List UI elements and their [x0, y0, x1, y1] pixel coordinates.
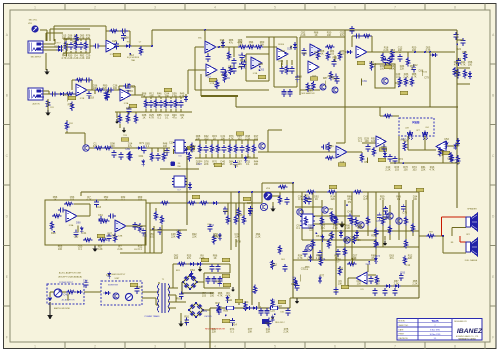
svg-text:4.7K: 4.7K	[179, 95, 184, 98]
svg-text:C83: C83	[137, 286, 142, 289]
svg-text:C28: C28	[277, 305, 282, 308]
svg-text:R99: R99	[103, 92, 108, 95]
svg-text:C12: C12	[406, 264, 411, 267]
svg-text:47u: 47u	[340, 34, 345, 37]
svg-text:C56: C56	[214, 85, 219, 88]
svg-text:D98: D98	[76, 222, 81, 225]
svg-text:R53: R53	[100, 219, 105, 222]
svg-text:0.1: 0.1	[358, 140, 362, 143]
svg-text:C98: C98	[439, 150, 444, 153]
svg-text:0.1: 0.1	[138, 248, 142, 251]
svg-text:C13: C13	[96, 206, 101, 209]
svg-text:R25: R25	[454, 71, 459, 74]
svg-text:AC/DC ADAPTOR UNIT: AC/DC ADAPTOR UNIT	[59, 272, 82, 275]
svg-text:2.2K: 2.2K	[383, 49, 388, 52]
svg-text:22K: 22K	[408, 257, 413, 260]
svg-text:R14: R14	[232, 324, 237, 327]
svg-text:DATE: DATE	[399, 328, 405, 331]
svg-text:D18: D18	[89, 97, 94, 100]
svg-text:0.1: 0.1	[246, 163, 250, 166]
svg-text:R32: R32	[112, 235, 117, 238]
svg-text:R48: R48	[126, 107, 131, 110]
svg-text:R81: R81	[203, 310, 208, 313]
svg-text:10K: 10K	[371, 140, 376, 143]
svg-text:PRINT: PRINT	[399, 334, 406, 336]
svg-text:1.1: 1.1	[434, 338, 437, 340]
svg-text:B: B	[492, 94, 494, 98]
svg-text:C44: C44	[83, 280, 88, 283]
svg-text:1K: 1K	[158, 95, 161, 98]
svg-text:22K: 22K	[331, 198, 336, 201]
svg-text:D20: D20	[51, 232, 56, 235]
svg-text:1K: 1K	[180, 117, 183, 120]
svg-text:R&B: R&B	[412, 121, 420, 125]
svg-text:R91: R91	[184, 315, 189, 318]
svg-text:103: 103	[396, 76, 401, 79]
svg-text:0.1: 0.1	[296, 227, 300, 230]
svg-text:TAB: TAB	[131, 59, 135, 62]
svg-text:0.1: 0.1	[157, 117, 161, 120]
svg-text:1K: 1K	[213, 138, 216, 141]
svg-text:C41: C41	[82, 232, 87, 235]
svg-text:MODEL: MODEL	[399, 321, 406, 323]
svg-text:2.2K: 2.2K	[385, 169, 390, 172]
svg-text:D24: D24	[456, 48, 461, 51]
svg-text:IC8B: IC8B	[118, 236, 123, 238]
svg-text:POWER SUPPLY: POWER SUPPLY	[109, 274, 126, 276]
svg-text:C22: C22	[142, 234, 147, 237]
svg-text:D29: D29	[246, 156, 251, 159]
svg-text:C35: C35	[456, 58, 461, 61]
svg-text:DRIVE: DRIVE	[278, 44, 285, 46]
svg-text:C34: C34	[98, 214, 103, 217]
svg-text:2: 2	[94, 6, 96, 10]
svg-text:10K: 10K	[364, 140, 369, 143]
svg-text:R12: R12	[291, 283, 296, 286]
svg-text:2.2K: 2.2K	[283, 331, 288, 334]
svg-text:R78: R78	[236, 240, 241, 243]
svg-text:R59: R59	[225, 77, 230, 80]
svg-text:1K: 1K	[53, 199, 56, 202]
svg-text:47u: 47u	[93, 145, 98, 148]
svg-text:10K: 10K	[93, 87, 98, 90]
svg-text:R31: R31	[328, 234, 333, 237]
svg-text:0.1: 0.1	[165, 117, 169, 120]
svg-text:2: 2	[434, 325, 435, 327]
svg-text:D60: D60	[280, 50, 285, 53]
svg-text:C40: C40	[63, 294, 68, 297]
svg-text:2: 2	[94, 345, 96, 349]
svg-text:2.2K: 2.2K	[172, 95, 177, 98]
svg-text:103: 103	[412, 169, 417, 172]
svg-text:1K: 1K	[314, 34, 317, 37]
svg-text:D30: D30	[191, 145, 196, 148]
svg-text:C76: C76	[270, 299, 275, 302]
svg-text:C90: C90	[351, 257, 356, 260]
svg-text:R68: R68	[215, 281, 220, 284]
svg-text:R27: R27	[375, 243, 380, 246]
svg-text:4.7K: 4.7K	[425, 49, 430, 52]
svg-text:R85: R85	[381, 146, 386, 149]
svg-text:TA25: TA25	[431, 319, 438, 323]
svg-text:103: 103	[340, 53, 345, 56]
svg-text:0.1: 0.1	[249, 44, 253, 47]
svg-text:R58: R58	[68, 104, 73, 107]
svg-text:103: 103	[202, 295, 207, 298]
svg-text:47u: 47u	[321, 227, 326, 230]
svg-text:100: 100	[58, 248, 63, 251]
svg-text:MIC INPUT: MIC INPUT	[31, 57, 42, 59]
svg-text:2.2K: 2.2K	[199, 257, 204, 260]
svg-text:D18: D18	[238, 214, 243, 217]
svg-text:22K: 22K	[171, 236, 176, 239]
svg-text:R86: R86	[258, 63, 263, 66]
svg-text:D89: D89	[228, 65, 233, 68]
svg-text:REVISION: REVISION	[399, 338, 409, 340]
svg-text:R56: R56	[371, 235, 376, 238]
svg-text:22K: 22K	[260, 44, 265, 47]
svg-text:D58: D58	[124, 36, 129, 39]
svg-text:0.1: 0.1	[121, 199, 125, 202]
svg-text:C74: C74	[321, 258, 326, 261]
svg-text:0.1: 0.1	[78, 248, 82, 251]
svg-text:R81: R81	[329, 145, 334, 148]
svg-text:C41: C41	[347, 211, 352, 214]
svg-text:C68: C68	[301, 223, 306, 226]
svg-text:C87: C87	[350, 237, 355, 240]
svg-text:R53: R53	[305, 266, 310, 269]
svg-text:D17: D17	[217, 236, 222, 239]
svg-text:2.2K: 2.2K	[79, 57, 84, 60]
svg-text:C25: C25	[112, 40, 117, 43]
svg-text:REG DR C: REG DR C	[275, 322, 285, 324]
svg-text:100: 100	[113, 87, 118, 90]
svg-text:47u: 47u	[187, 257, 192, 260]
svg-text:10K: 10K	[254, 163, 259, 166]
svg-text:IC3B: IC3B	[253, 73, 258, 75]
svg-text:22K: 22K	[266, 331, 271, 334]
svg-text:6: 6	[334, 6, 336, 10]
svg-text:E: E	[492, 275, 494, 279]
svg-text:C76: C76	[402, 211, 407, 214]
svg-text:C70: C70	[376, 220, 381, 223]
svg-text:1K: 1K	[142, 117, 145, 120]
svg-text:D65: D65	[336, 259, 341, 262]
svg-text:D68: D68	[72, 40, 77, 43]
svg-text:10K: 10K	[248, 331, 253, 334]
svg-text:103: 103	[237, 138, 242, 141]
svg-text:C93: C93	[74, 235, 79, 238]
svg-text:D42: D42	[227, 299, 232, 302]
svg-text:D52: D52	[272, 264, 277, 267]
svg-text:2.2K: 2.2K	[300, 34, 305, 37]
svg-text:RED WIRE REMOVE: RED WIRE REMOVE	[205, 329, 226, 331]
svg-text:R64: R64	[209, 224, 214, 227]
svg-text:D58: D58	[297, 75, 302, 78]
svg-text:2.2K: 2.2K	[67, 57, 72, 60]
svg-text:IC2A: IC2A	[124, 102, 129, 105]
svg-text:22K: 22K	[400, 68, 405, 71]
svg-text:4.7K: 4.7K	[217, 295, 222, 298]
svg-text:SHEET NO.: SHEET NO.	[399, 325, 410, 327]
svg-text:R23: R23	[62, 54, 67, 57]
svg-text:POWER TRANS: POWER TRANS	[145, 315, 161, 318]
svg-text:C11: C11	[164, 150, 169, 153]
svg-text:10 Nov 1995: 10 Nov 1995	[430, 334, 441, 336]
svg-text:100: 100	[357, 283, 362, 286]
svg-text:4: 4	[214, 345, 216, 349]
svg-text:E: E	[6, 275, 8, 279]
svg-text:4.7K: 4.7K	[86, 199, 91, 202]
svg-text:2.2K: 2.2K	[79, 37, 84, 40]
svg-text:4.7K: 4.7K	[460, 64, 465, 67]
svg-text:D77: D77	[311, 84, 316, 87]
svg-text:1: 1	[34, 6, 36, 10]
svg-text:22K: 22K	[149, 95, 154, 98]
svg-text:100: 100	[413, 198, 418, 201]
svg-text:47u: 47u	[229, 42, 234, 45]
svg-text:100: 100	[210, 295, 215, 298]
svg-text:C24: C24	[371, 63, 376, 66]
svg-text:C79: C79	[424, 76, 429, 79]
svg-text:C59: C59	[307, 257, 312, 260]
svg-text:103: 103	[330, 53, 335, 56]
svg-text:C98: C98	[278, 60, 283, 63]
svg-text:D30: D30	[339, 268, 344, 271]
svg-text:MIX MASTER: MIX MASTER	[302, 92, 315, 95]
svg-text:R51: R51	[316, 235, 321, 238]
svg-text:R58: R58	[223, 309, 228, 312]
svg-text:D75: D75	[462, 51, 467, 54]
svg-text:D49: D49	[302, 52, 307, 55]
svg-text:103: 103	[70, 199, 75, 202]
svg-text:2.2K: 2.2K	[97, 248, 102, 251]
svg-text:R77: R77	[320, 274, 325, 277]
svg-text:C53: C53	[444, 138, 449, 141]
svg-text:MIC VOL: MIC VOL	[29, 20, 38, 22]
svg-text:3: 3	[154, 345, 156, 349]
svg-text:103: 103	[204, 138, 209, 141]
svg-text:EQ/CHORUS: EQ/CHORUS	[127, 57, 140, 59]
svg-text:7: 7	[394, 345, 396, 349]
svg-text:6: 6	[334, 345, 336, 349]
svg-text:R81: R81	[234, 165, 239, 168]
svg-text:INVERTER: INVERTER	[108, 285, 119, 287]
svg-text:D59: D59	[252, 291, 257, 294]
svg-text:4.7K: 4.7K	[61, 57, 66, 60]
svg-text:22K: 22K	[204, 163, 209, 166]
svg-text:R73: R73	[375, 255, 380, 258]
svg-text:C64: C64	[425, 127, 428, 129]
svg-text:22K: 22K	[421, 169, 426, 172]
svg-text:D12: D12	[129, 54, 134, 57]
svg-text:C37: C37	[247, 202, 252, 205]
svg-text:C61: C61	[139, 155, 144, 158]
svg-text:10K: 10K	[327, 34, 332, 37]
svg-text:FULL RANGE: FULL RANGE	[465, 259, 478, 262]
svg-text:47u: 47u	[390, 257, 395, 260]
svg-text:C10: C10	[169, 142, 174, 145]
svg-text:D22: D22	[242, 66, 247, 69]
svg-text:C24: C24	[244, 301, 249, 304]
svg-text:0.1: 0.1	[397, 198, 401, 201]
svg-text:2.2K: 2.2K	[403, 76, 408, 79]
svg-text:100: 100	[110, 145, 115, 148]
svg-text:103: 103	[174, 257, 179, 260]
svg-text:2.2K: 2.2K	[245, 138, 250, 141]
svg-text:103: 103	[254, 138, 259, 141]
svg-text:C89: C89	[223, 210, 228, 213]
svg-text:4.7K: 4.7K	[229, 138, 234, 141]
svg-text:D53: D53	[260, 68, 265, 71]
svg-text:(EXCEPT USA/CANADA): (EXCEPT USA/CANADA)	[58, 276, 82, 279]
svg-text:D96: D96	[308, 89, 313, 92]
svg-text:4.7K: 4.7K	[380, 198, 385, 201]
svg-text:3: 3	[154, 6, 156, 10]
svg-text:0.1: 0.1	[298, 198, 302, 201]
svg-text:LM7815: LM7815	[204, 316, 212, 318]
svg-text:4.7K: 4.7K	[149, 117, 154, 120]
svg-text:C83: C83	[390, 49, 395, 52]
svg-text:2.2K: 2.2K	[412, 283, 417, 286]
svg-text:10K: 10K	[165, 95, 170, 98]
svg-text:10K: 10K	[398, 49, 403, 52]
svg-text:MIC: MIC	[198, 38, 202, 40]
svg-text:103: 103	[86, 57, 91, 60]
svg-text:10K: 10K	[338, 283, 343, 286]
svg-text:100: 100	[238, 44, 243, 47]
svg-text:IBANEZ: IBANEZ	[457, 328, 483, 335]
svg-text:IC8A: IC8A	[69, 224, 74, 227]
svg-text:R71: R71	[139, 142, 144, 145]
svg-text:4.7K: 4.7K	[225, 295, 230, 298]
svg-text:D55: D55	[304, 195, 309, 198]
svg-text:1K: 1K	[315, 198, 318, 201]
svg-text:D22: D22	[54, 45, 59, 48]
svg-text:D46: D46	[177, 229, 182, 232]
svg-text:5: 5	[274, 345, 276, 349]
svg-text:4.7K: 4.7K	[297, 257, 302, 260]
svg-text:103: 103	[138, 199, 143, 202]
svg-text:C62: C62	[447, 157, 452, 160]
svg-text:103: 103	[395, 169, 400, 172]
svg-text:IC1B: IC1B	[80, 98, 85, 100]
svg-text:D11: D11	[314, 51, 319, 54]
svg-text:SPEAKER: SPEAKER	[467, 208, 477, 211]
svg-text:EARTH GROUND: EARTH GROUND	[54, 307, 71, 310]
svg-text:3 Nov 1995: 3 Nov 1995	[430, 330, 440, 332]
svg-text:SW: SW	[177, 166, 180, 168]
svg-text:D93: D93	[400, 272, 405, 275]
svg-text:D16: D16	[128, 90, 133, 93]
svg-text:UNIT: UNIT	[115, 278, 121, 280]
svg-text:LDR: LDR	[405, 128, 409, 130]
svg-text:4: 4	[214, 6, 216, 10]
svg-text:0.1: 0.1	[230, 331, 234, 334]
svg-text:R83: R83	[176, 297, 181, 300]
svg-text:100: 100	[412, 49, 417, 52]
svg-text:C16: C16	[270, 310, 275, 313]
svg-text:2.2K: 2.2K	[117, 248, 122, 251]
svg-text:4.7K: 4.7K	[363, 198, 368, 201]
svg-text:47u: 47u	[172, 117, 177, 120]
svg-text:100: 100	[404, 169, 409, 172]
svg-text:F: F	[492, 336, 494, 340]
svg-text:2.2K: 2.2K	[255, 236, 260, 239]
svg-text:D78: D78	[239, 54, 244, 57]
svg-text:R12: R12	[413, 64, 418, 67]
svg-text:F: F	[6, 336, 8, 340]
svg-text:D57: D57	[63, 94, 68, 97]
svg-text:DESIGNED BY: DESIGNED BY	[454, 321, 468, 323]
svg-text:7: 7	[394, 6, 396, 10]
svg-text:1K: 1K	[230, 163, 233, 166]
svg-text:22K: 22K	[192, 236, 197, 239]
svg-text:SP2: SP2	[466, 234, 470, 236]
svg-text:D37: D37	[197, 163, 202, 166]
svg-text:1K: 1K	[142, 95, 145, 98]
svg-text:C89: C89	[125, 148, 130, 151]
svg-text:2.2K: 2.2K	[345, 227, 350, 230]
svg-text:100: 100	[163, 145, 168, 148]
svg-text:C45: C45	[366, 263, 371, 266]
svg-text:1: 1	[34, 345, 36, 349]
svg-text:4.7K: 4.7K	[411, 76, 416, 79]
svg-text:22K: 22K	[212, 331, 217, 334]
svg-text:R87: R87	[240, 59, 245, 62]
svg-text:10K: 10K	[196, 138, 201, 141]
svg-text:1K: 1K	[220, 42, 223, 45]
svg-text:4.7K: 4.7K	[429, 169, 434, 172]
svg-text:10K: 10K	[221, 138, 226, 141]
svg-text:2.2K: 2.2K	[333, 227, 338, 230]
svg-text:AUX IN: AUX IN	[33, 103, 40, 106]
svg-text:5: 5	[274, 6, 276, 10]
svg-text:D32: D32	[130, 86, 135, 89]
svg-text:D74: D74	[398, 158, 403, 161]
svg-text:1K: 1K	[320, 53, 323, 56]
svg-text:8: 8	[454, 345, 456, 349]
svg-text:100: 100	[468, 64, 473, 67]
svg-text:D20: D20	[287, 47, 292, 50]
svg-text:8: 8	[454, 6, 456, 10]
svg-text:D77: D77	[383, 217, 388, 220]
svg-text:1K: 1K	[213, 257, 216, 260]
svg-text:C69: C69	[362, 80, 367, 83]
svg-text:D11: D11	[265, 322, 270, 325]
svg-text:HAMAMATSU JAPAN: HAMAMATSU JAPAN	[458, 337, 476, 340]
svg-text:R45: R45	[332, 56, 337, 59]
svg-text:R60: R60	[403, 139, 408, 142]
svg-text:2.2K: 2.2K	[73, 57, 78, 60]
svg-text:D56: D56	[328, 208, 333, 211]
svg-text:C96: C96	[357, 226, 362, 229]
svg-text:C68: C68	[307, 224, 312, 227]
svg-text:C37: C37	[106, 274, 111, 277]
svg-text:D64: D64	[190, 269, 195, 272]
svg-text:R37: R37	[215, 302, 220, 305]
svg-text:1K: 1K	[104, 199, 107, 202]
svg-text:B: B	[6, 94, 8, 98]
